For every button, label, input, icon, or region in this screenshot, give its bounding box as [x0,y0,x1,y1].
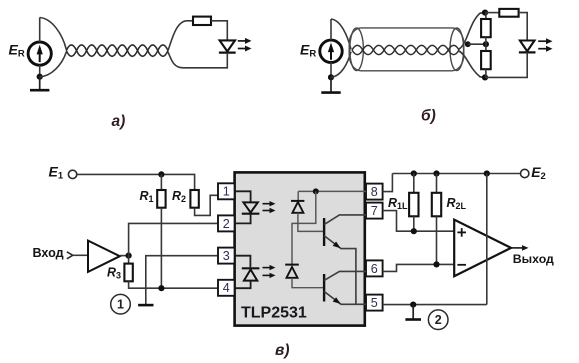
ground (circuit v left) [138,304,153,307]
node: minus input / R2L [433,261,439,267]
wire: lower resistor to bottom node [485,69,487,77]
node: plus input / R1L [411,228,417,234]
svg-text:ER: ER [300,42,316,60]
LED (circuit a) [220,40,235,51]
LED2 (IC emitter ch2, reversed) [242,267,260,269]
node: buffer output [126,253,132,259]
node at source bottom (b) [328,74,334,80]
wire: pin7 to comparator plus [383,211,455,232]
resistor series (circuit b) [499,9,518,17]
node: E1 rail / R1 [158,171,164,177]
photodiode1 [291,200,304,202]
wire: upper resistor to mid [485,37,487,44]
wire: R2L down to minus node (crosses plus wire) [436,216,438,264]
op-to-coupler IC TLP2531 body [235,172,365,325]
wire: LED bottom return [168,52,227,68]
node: junction at source bottom [37,74,43,80]
wire: top node to series resistor [485,12,499,14]
buffer amplifier [88,241,120,272]
node: Vcc rail [313,188,319,194]
wire: chevron to buffer [73,254,88,256]
wire: source top riser [39,18,41,43]
resistor lower (circuit b divider) [481,51,491,69]
wire: E1 rail [77,174,195,190]
wire: rail to R1L [413,174,415,193]
wire: photodiode2 anode to Q2 base [292,278,323,288]
wire: node to pin 2 [129,223,218,255]
wire: LED return to bottom node [485,52,527,77]
pin 8 [366,184,383,200]
wire: pair to resistor (top) [168,21,193,51]
LED1 light arrows [263,203,272,205]
current source ER (circuit b) [320,40,342,62]
svg-text:ER: ER [9,42,25,60]
svg-text:R1: R1 [140,189,154,204]
node: rail / R2L [433,170,439,176]
wire: bottom curve into shield [331,52,351,78]
svg-text:3: 3 [223,249,230,263]
svg-text:8: 8 [371,185,378,199]
svg-text:R2: R2 [172,189,186,204]
svg-text:4: 4 [223,281,230,295]
wire: R2 bottom to pin 1 [195,195,218,215]
svg-text:в): в) [275,342,290,359]
wire: node to R1 [160,174,162,190]
svg-text:E1: E1 [49,164,64,182]
node: divider mid [483,41,489,47]
svg-text:а): а) [112,113,126,130]
wire: pin1 to LED1 anode [235,191,251,202]
wire: source top riser (b) [330,19,332,40]
numbered node 1 [111,294,131,314]
svg-text:Вход: Вход [33,246,64,260]
wire: Vcc rail to pin8 [298,190,366,192]
wire: Vcc to photodiode2 [292,191,316,264]
node: top (b) [482,10,488,16]
node: rail / down wire [484,170,490,176]
wire: mid to lower resistor [485,44,487,51]
node: ground rail [410,302,416,308]
wire: pin3 to LED2 cathode [235,256,251,268]
LED light arrows (circuit b) [538,40,547,42]
resistor (circuit a, series) [193,17,211,25]
resistor R1 [157,190,165,208]
wire: top curve into pair [40,18,67,50]
ground (circuit b) [330,77,332,92]
wire: top node to upper resistor [485,13,487,19]
pin 1 [218,183,235,199]
transistor Q1 [323,218,325,246]
plus marking [457,231,466,233]
wire: source bottom (b) [330,62,332,77]
wire: R3 bottom along pin4 line [129,281,218,288]
minus marking [457,264,466,266]
input chevron [67,252,73,259]
terminal E1 [68,170,76,178]
svg-text:R3: R3 [107,265,121,280]
wire: node to R3 [128,256,130,264]
resistor R2 [190,190,198,208]
wire: photodiode1 anode to Q1 base [298,213,323,232]
photodiode2 [285,264,299,266]
pin 6 [366,260,383,276]
svg-text:1: 1 [117,298,124,312]
LED1 (IC emitter ch1) [243,202,257,212]
pin 7 [366,203,383,219]
svg-text:6: 6 [371,262,378,276]
wire: LED2 anode to pin4 [235,281,251,289]
svg-text:Выход: Выход [513,252,554,266]
svg-text:7: 7 [371,204,378,218]
node: shield tap [465,41,471,47]
numbered node 2 [428,310,448,330]
resistor R2L [432,193,441,217]
wire: pair to bottom node (b) [459,51,485,77]
wire: R1L to plus node [413,216,415,231]
LED (circuit b) [520,41,535,52]
pin 5 [366,295,383,311]
resistor upper (circuit b divider) [481,19,491,37]
twisted pair (circuit a) [66,45,168,56]
svg-text:R1L: R1L [388,196,408,211]
svg-text:б): б) [421,108,436,125]
svg-text:2: 2 [435,313,442,327]
svg-text:5: 5 [371,296,378,310]
ground (circuit a) [39,77,41,91]
resistor R3 [124,264,132,282]
terminal E2 [521,169,529,177]
LED2 light arrows [263,267,272,269]
svg-text:2: 2 [223,217,230,231]
wire: bottom curve into pair [40,52,67,77]
comparator U2 [454,220,511,277]
wire: E2 rail [392,173,520,175]
wire: E2 down wire over comparator [486,174,488,305]
node: bottom (b) [482,74,488,80]
resistor R1L [409,193,418,217]
node: R1 joins pin4 line [158,285,164,291]
current source ER (circuit a) [28,42,51,65]
wire: shield tap to divider mid [468,43,486,45]
ground (circuit v right) [412,305,414,319]
pin 2 [218,215,235,231]
wire: resistor to LED [211,21,227,41]
wire: buffer output [120,255,129,257]
transistor Q2 [323,274,325,302]
wire: top curve into shield [331,19,351,49]
wire: rail to R2L [436,174,438,193]
cable shield outline [349,28,464,71]
wire: pair to top node (b) [459,13,485,49]
wire: pin8 to E2 rail [383,174,393,192]
wire: LED1 cathode to pin2 [235,214,251,224]
pin 4 [218,280,235,296]
photodiode1 riser [297,191,299,200]
pin 3 [218,248,235,264]
wire: pin 3 to ground [146,256,218,305]
svg-text:TLP2531: TLP2531 [241,305,307,322]
wire: pin6 to comparator minus [383,264,455,271]
wire: pin5 ground rail [383,304,487,306]
LED light arrows (circuit a) [238,40,247,42]
wire: source bottom to node [39,65,41,77]
svg-text:E2: E2 [531,164,546,182]
svg-text:R2L: R2L [447,196,467,211]
wire: series resistor to LED [519,13,528,41]
shield left end ellipse [350,28,364,71]
twisted pair (circuit b) [352,45,459,54]
wire: R1 bottom to pin4 line [160,208,162,289]
svg-text:1: 1 [223,185,230,199]
shield right end ellipse [450,28,464,71]
comparator output arrow [511,247,524,249]
node: rail / R1L [411,170,417,176]
